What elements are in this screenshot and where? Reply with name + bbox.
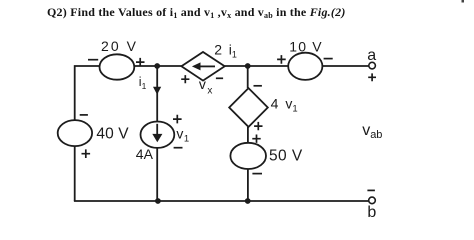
minus sign bottom-right of 4A [174, 147, 183, 149]
wire 50V to bottom [247, 169, 249, 201]
minus sign below-right of 2i1 diamond [216, 77, 223, 79]
svg-text:i1: i1 [139, 75, 147, 91]
plus sign below 40V [82, 149, 91, 158]
wire 4v1 diamond to 50V [247, 127, 249, 143]
svg-text:40 V: 40 V [96, 126, 129, 143]
wire top-left corner to 20V [75, 66, 100, 121]
title [47, 5, 346, 20]
minus sign right of 10V [324, 58, 333, 60]
node dot C (bottom left junction) [155, 198, 161, 204]
wire node to 4v1 diamond [247, 66, 249, 88]
node dot D (bottom right junction) [245, 198, 251, 204]
svg-text:10 V: 10 V [289, 38, 322, 54]
arrow inside 4A source [152, 124, 162, 143]
wire node to i1 arrow down to 4A [156, 66, 158, 122]
svg-text:b: b [367, 204, 376, 219]
arrow inside 2i1 diamond [192, 62, 215, 70]
minus sign above-right of 4v1 diamond [254, 85, 262, 87]
voltage source V2 10V ellipse [288, 53, 322, 80]
bottom wire [74, 200, 369, 202]
dependent source 4v1 diamond [229, 88, 268, 127]
svg-text:vab: vab [362, 122, 382, 141]
plus sign below terminal a [368, 73, 376, 81]
svg-text:20 V: 20 V [101, 38, 137, 54]
svg-text:4v1: 4v1 [271, 95, 298, 114]
svg-text:v1: v1 [176, 126, 189, 145]
minus sign below 50V [252, 173, 262, 175]
stray mark top right [462, 0, 465, 3]
svg-text:4A: 4A [136, 146, 154, 162]
voltage source V4 50V ellipse [230, 143, 266, 169]
plus sign below-right of 4v1 diamond [254, 122, 262, 130]
voltage source V1 20V ellipse [100, 54, 135, 79]
plus sign right of 20V [136, 58, 145, 67]
i1 current arrowhead on wire [153, 87, 161, 95]
wire 10V to terminal a [322, 65, 368, 67]
minus sign above terminal b [367, 189, 375, 191]
wire 40V to bottom [74, 146, 76, 201]
voltage source V3 40V ellipse [58, 120, 92, 146]
dependent source 2i1 diamond [181, 52, 224, 81]
svg-text:2i1: 2i1 [214, 42, 237, 60]
node dot A (top left junction) [154, 63, 160, 69]
svg-text:a: a [367, 47, 376, 64]
plus sign below-left of 2i1 diamond [181, 75, 189, 83]
minus sign left of 20V [88, 59, 98, 61]
wire diamond to 10V [225, 65, 289, 67]
plus sign above 50V [252, 135, 260, 143]
plus sign left of 10V [277, 55, 286, 64]
svg-text:50 V: 50 V [269, 148, 303, 165]
minus sign above 40V [80, 114, 88, 116]
svg-text:vx: vx [199, 76, 213, 97]
node dot B (top right junction) [245, 63, 251, 69]
terminal a [369, 62, 376, 69]
current source I1 4A ellipse [141, 122, 175, 148]
wire 20V to 2i1 diamond [134, 65, 181, 67]
wire 4A to bottom [156, 148, 158, 201]
terminal b [369, 197, 376, 204]
plus sign top-right of 4A [173, 115, 182, 124]
